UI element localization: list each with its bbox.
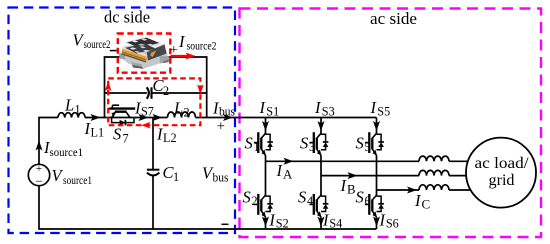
svg-text:S7: S7 <box>141 104 154 118</box>
svg-text:S: S <box>298 188 306 207</box>
svg-text:L2: L2 <box>163 131 177 145</box>
svg-text:S: S <box>245 134 253 153</box>
svg-text:1: 1 <box>254 140 260 154</box>
svg-text:C: C <box>422 196 431 211</box>
svg-text:+: + <box>170 43 178 58</box>
svg-text:ac load/: ac load/ <box>475 155 530 172</box>
svg-text:+: + <box>217 119 225 135</box>
svg-text:source1: source1 <box>63 175 92 187</box>
svg-text:5: 5 <box>365 140 371 154</box>
svg-text:3: 3 <box>309 140 315 154</box>
svg-text:S: S <box>356 134 364 153</box>
svg-text:L: L <box>173 98 183 117</box>
svg-text:ac side: ac side <box>370 9 417 28</box>
svg-text:L: L <box>64 96 74 115</box>
svg-text:S1: S1 <box>266 104 279 118</box>
svg-text:S: S <box>300 134 308 153</box>
svg-text:S: S <box>243 188 251 207</box>
svg-text:2: 2 <box>184 105 190 119</box>
svg-text:bus: bus <box>219 105 235 119</box>
svg-text:7: 7 <box>123 132 129 146</box>
svg-text:bus: bus <box>213 170 229 184</box>
svg-text:grid: grid <box>489 172 515 189</box>
svg-text:dc side: dc side <box>104 7 150 26</box>
svg-text:source2: source2 <box>187 41 217 53</box>
svg-text:S6: S6 <box>386 217 399 231</box>
svg-text:6: 6 <box>365 194 371 208</box>
svg-text:L1: L1 <box>91 125 105 139</box>
svg-text:2: 2 <box>252 194 258 208</box>
svg-text:source2: source2 <box>84 39 111 51</box>
svg-text:S5: S5 <box>377 104 390 118</box>
svg-text:B: B <box>347 182 356 196</box>
svg-text:1: 1 <box>75 103 81 117</box>
svg-text:4: 4 <box>307 194 313 208</box>
svg-text:S: S <box>356 188 364 207</box>
svg-text:1: 1 <box>173 170 179 184</box>
svg-text:−: − <box>35 173 42 188</box>
svg-text:S: S <box>113 125 121 144</box>
svg-text:S2: S2 <box>276 217 289 231</box>
svg-text:S4: S4 <box>329 217 342 231</box>
svg-text:2: 2 <box>163 84 169 98</box>
svg-text:A: A <box>283 167 293 181</box>
svg-text:S3: S3 <box>322 104 335 118</box>
svg-text:source1: source1 <box>50 147 84 159</box>
